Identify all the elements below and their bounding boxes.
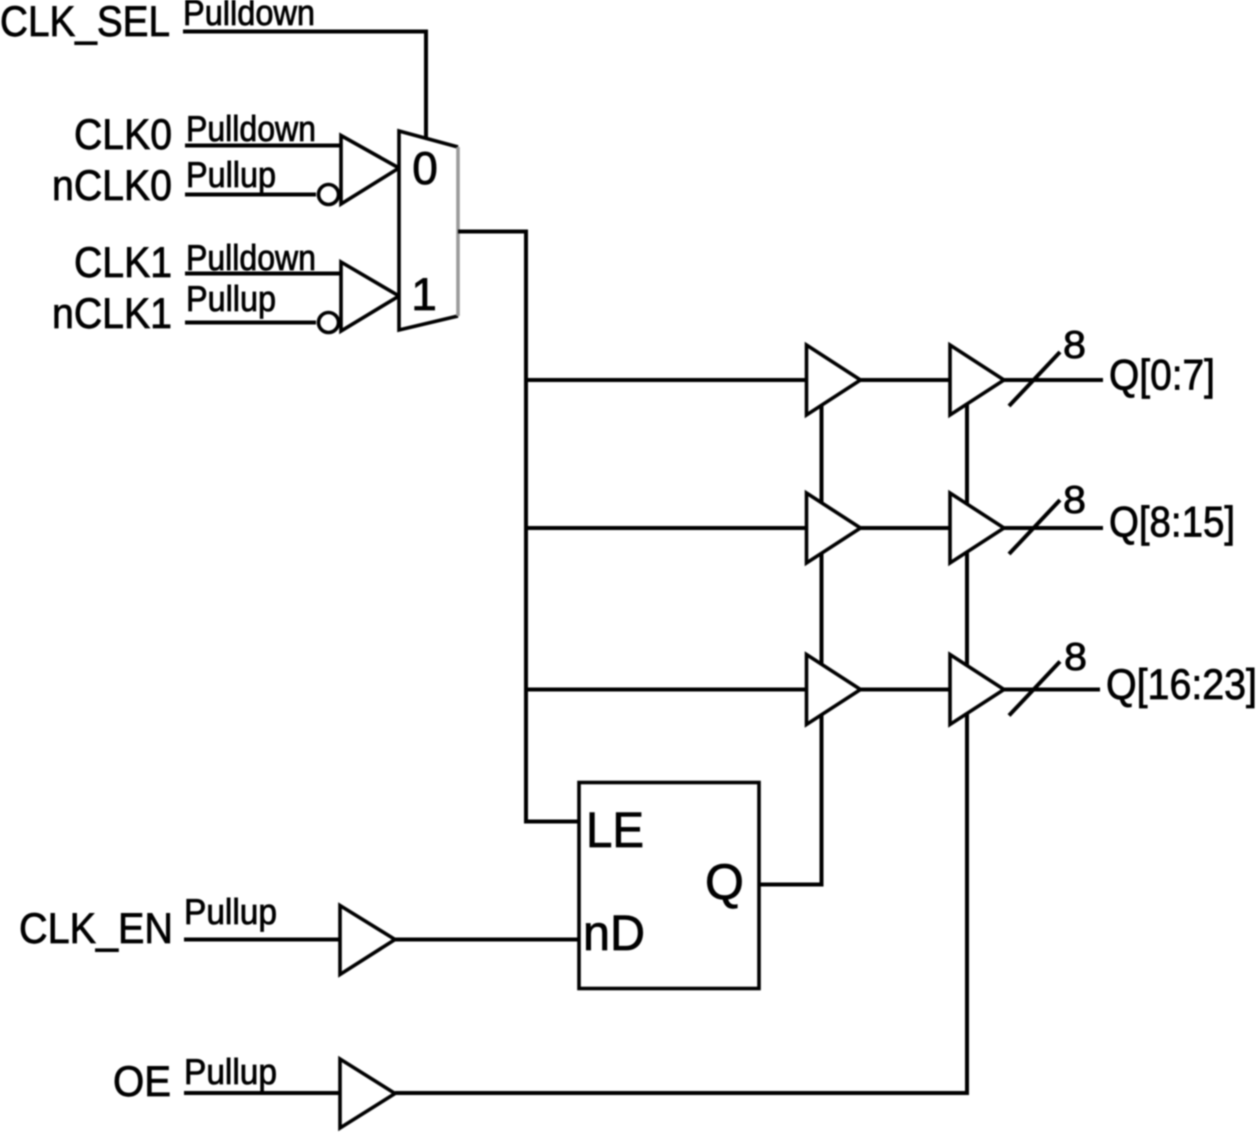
inverter bubble on nCLK1 input of buffer U2 (319, 313, 339, 333)
svg-text:nCLK1: nCLK1 (52, 290, 172, 338)
svg-text:nD: nD (583, 905, 645, 961)
svg-text:CLK0: CLK0 (74, 111, 172, 159)
wire OE input (184, 1091, 340, 1095)
svg-text:Pullup: Pullup (186, 154, 276, 195)
stage2 buffer U9 row3 (950, 655, 1004, 725)
clock multiplexer U3 (399, 131, 458, 330)
svg-text:Pullup: Pullup (186, 278, 276, 319)
differential input buffer U1 (CLK0/nCLK0) (341, 136, 399, 205)
differential input buffer U2 (CLK1/nCLK1) (341, 262, 399, 331)
bus slash row1 (1009, 352, 1060, 406)
wire row2 output (1004, 526, 1103, 530)
svg-text:Q[0:7]: Q[0:7] (1109, 352, 1215, 400)
svg-text:Pulldown: Pulldown (186, 108, 316, 149)
svg-text:CLK_EN: CLK_EN (19, 905, 173, 953)
svg-text:nCLK0: nCLK0 (52, 162, 172, 210)
bus slash row2 (1009, 500, 1060, 554)
wire OE buffer to stage2 buffer enables (395, 400, 967, 1093)
svg-text:Pulldown: Pulldown (183, 0, 315, 33)
svg-text:Q[16:23]: Q[16:23] (1106, 661, 1256, 709)
svg-text:LE: LE (586, 802, 644, 858)
wire row1 stage1 to stage2 (861, 378, 951, 382)
svg-text:8: 8 (1064, 636, 1087, 679)
stage1 buffer U6 row3 (807, 655, 861, 725)
wire CLK1 input (185, 272, 341, 276)
wire nCLK0 input (185, 193, 316, 197)
svg-text:1: 1 (411, 268, 437, 320)
wire CLK_EN input (184, 938, 340, 942)
wire branch to row1 buffer (526, 378, 807, 382)
stage2 buffer U8 row2 (950, 493, 1004, 563)
wire row3 output (1004, 688, 1100, 692)
svg-text:0: 0 (412, 142, 438, 194)
stage1 buffer U5 row2 (807, 493, 861, 563)
wire latch Q to stage1 buffer enables (759, 400, 822, 885)
bus slash row3 (1009, 662, 1060, 716)
buffer U11 (CLK_EN) (340, 906, 395, 975)
svg-text:CLK_SEL: CLK_SEL (0, 0, 170, 46)
inverter bubble on nCLK0 input of buffer U1 (319, 185, 339, 205)
wire nCLK1 input (185, 321, 316, 325)
svg-text:8: 8 (1063, 479, 1086, 522)
wire branch to row3 buffer (526, 688, 807, 692)
svg-text:Q: Q (705, 854, 744, 910)
svg-text:Q[8:15]: Q[8:15] (1109, 499, 1235, 547)
wire row3 stage1 to stage2 (861, 688, 951, 692)
latch U10 body (579, 783, 759, 989)
stage1 buffer U4 row1 (807, 345, 861, 415)
svg-text:Pullup: Pullup (184, 891, 277, 932)
wire row2 stage1 to stage2 (861, 526, 951, 530)
wire CLK_EN buffer to latch nD (395, 938, 579, 942)
wire CLK_SEL to mux select (183, 32, 426, 142)
svg-text:CLK1: CLK1 (74, 239, 172, 287)
wire branch to row2 buffer (526, 526, 807, 530)
svg-text:8: 8 (1063, 324, 1086, 367)
svg-text:OE: OE (113, 1058, 171, 1106)
wire row1 output (1004, 378, 1103, 382)
buffer U12 (OE) (340, 1059, 395, 1128)
wire CLK0 input (185, 144, 341, 148)
wire mux output trunk (458, 232, 579, 822)
svg-text:Pullup: Pullup (184, 1051, 277, 1092)
stage2 buffer U7 row1 (950, 345, 1004, 415)
